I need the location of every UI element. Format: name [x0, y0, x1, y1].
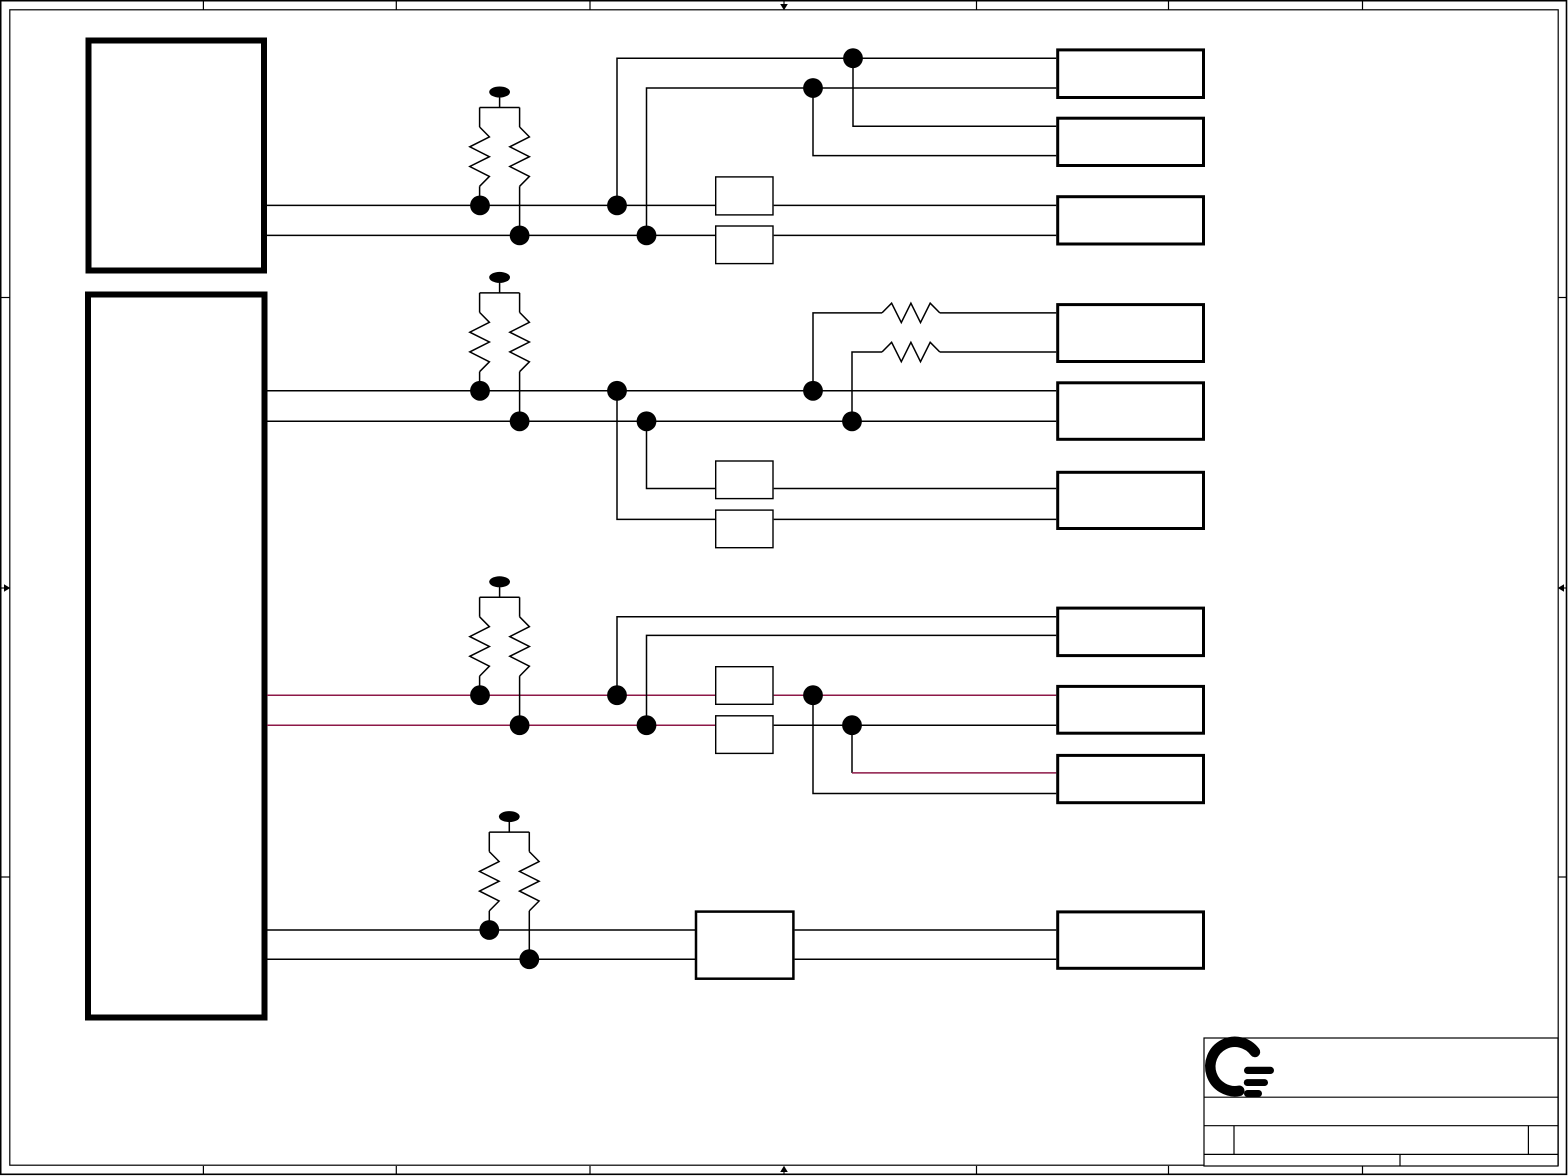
- connector J1: [1058, 50, 1204, 98]
- wire: [647, 421, 716, 488]
- wire: [480, 107, 520, 109]
- junction: [479, 920, 499, 940]
- power symbol VDD2: [489, 272, 510, 293]
- wire: [774, 234, 1056, 236]
- logo: [1210, 1042, 1274, 1097]
- component FB6: [716, 716, 773, 754]
- wire: [774, 724, 1056, 726]
- component FB5: [716, 667, 773, 705]
- junction: [637, 411, 657, 431]
- junction: [842, 715, 862, 735]
- junction: [510, 715, 530, 735]
- power symbol VDD4: [499, 811, 520, 832]
- wire: [813, 313, 882, 391]
- resistor R2: [510, 108, 530, 236]
- junction: [510, 226, 530, 246]
- junction: [803, 381, 823, 401]
- power symbol VDD1: [489, 87, 510, 108]
- wire: [489, 831, 529, 833]
- IC U1: [89, 41, 265, 271]
- wire: [853, 58, 1056, 126]
- wire: [813, 695, 1056, 793]
- junction: [607, 196, 627, 216]
- wire: [813, 88, 1056, 156]
- component FB4: [716, 510, 773, 548]
- wire: [940, 351, 1056, 353]
- IC U2: [88, 295, 265, 1018]
- connector J10: [1058, 912, 1204, 968]
- connector J6: [1058, 472, 1204, 528]
- wire: [617, 617, 1056, 695]
- connector J5: [1058, 383, 1204, 440]
- junction: [519, 949, 539, 969]
- wire: [774, 518, 1056, 520]
- resistor R10: [520, 832, 540, 959]
- connector J7: [1058, 608, 1204, 656]
- junction: [637, 226, 657, 246]
- junction: [637, 715, 657, 735]
- junction: [607, 685, 627, 705]
- connector J8: [1058, 686, 1204, 733]
- wire: [267, 724, 715, 726]
- junction: [470, 381, 490, 401]
- resistor R3: [882, 303, 940, 322]
- wire: [480, 292, 520, 294]
- wire: [267, 420, 1056, 422]
- junction: [607, 381, 627, 401]
- connector J4: [1058, 305, 1204, 362]
- wire: [267, 234, 715, 236]
- junction: [842, 411, 862, 431]
- component FB2: [716, 226, 773, 264]
- wire: [774, 488, 1056, 490]
- wire: [617, 58, 1056, 205]
- wire: [267, 204, 715, 206]
- resistor R1: [470, 108, 490, 206]
- junction: [510, 411, 530, 431]
- component FB1: [716, 177, 773, 215]
- junction: [803, 78, 823, 98]
- junction: [843, 48, 863, 68]
- wire: [267, 694, 715, 696]
- resistor R6: [510, 293, 530, 421]
- wire: [774, 694, 1056, 696]
- wire: [617, 391, 715, 520]
- wire: [795, 929, 1057, 931]
- connector J2: [1058, 118, 1204, 165]
- connector J3: [1058, 197, 1204, 244]
- resistor R4: [882, 342, 940, 361]
- resistor R9: [480, 832, 500, 930]
- wire: [267, 390, 1056, 392]
- junction: [470, 685, 490, 705]
- power symbol VDD3: [489, 576, 510, 597]
- wire: [267, 929, 695, 931]
- wire: [852, 772, 1056, 774]
- wire: [851, 725, 853, 773]
- title block: [1204, 1038, 1558, 1166]
- wire: [852, 352, 882, 421]
- wire: [940, 312, 1056, 314]
- resistor R5: [470, 293, 490, 391]
- wire: [774, 204, 1056, 206]
- component FB3: [716, 461, 773, 499]
- wire: [795, 958, 1057, 960]
- connector J9: [1058, 755, 1204, 802]
- wire: [480, 596, 520, 598]
- junction: [803, 685, 823, 705]
- component U3: [696, 912, 793, 979]
- resistor R7: [470, 597, 490, 695]
- wire: [267, 958, 695, 960]
- wire: [647, 88, 1057, 235]
- resistor R8: [510, 597, 530, 725]
- junction: [470, 196, 490, 216]
- wire: [647, 635, 1057, 725]
